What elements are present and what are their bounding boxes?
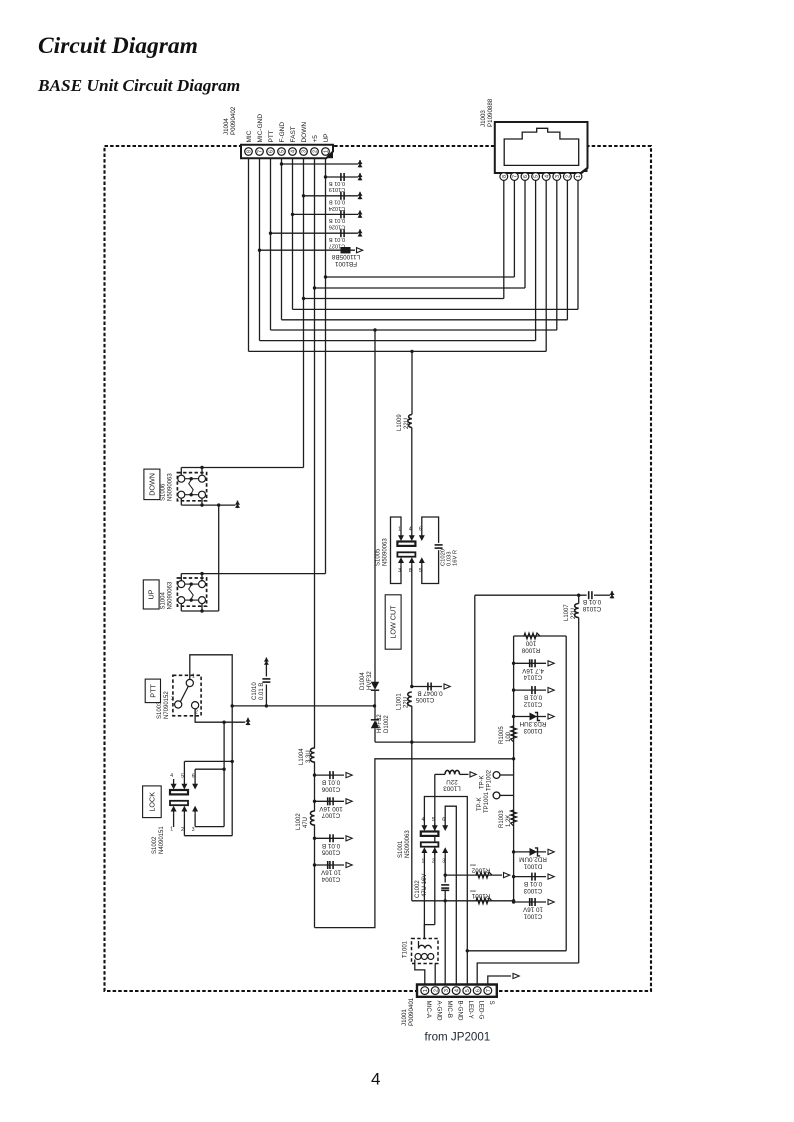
svg-text:from JP2001: from JP2001 bbox=[425, 1031, 491, 1044]
svg-text:3.3U: 3.3U bbox=[306, 750, 312, 763]
svg-text:MIC-A: MIC-A bbox=[425, 1001, 432, 1019]
svg-text:R1005: R1005 bbox=[499, 726, 505, 744]
svg-text:4: 4 bbox=[544, 175, 550, 178]
svg-text:S1002: S1002 bbox=[152, 836, 158, 854]
svg-text:4: 4 bbox=[454, 989, 460, 992]
svg-text:C1014: C1014 bbox=[523, 674, 542, 681]
svg-text:0.01 B: 0.01 B bbox=[329, 180, 345, 186]
svg-text:1: 1 bbox=[170, 827, 173, 833]
svg-text:3: 3 bbox=[192, 827, 195, 833]
svg-text:2: 2 bbox=[195, 710, 198, 716]
svg-text:22U: 22U bbox=[446, 778, 458, 785]
svg-text:S: S bbox=[488, 1001, 495, 1005]
svg-text:6: 6 bbox=[523, 175, 529, 178]
svg-text:HPF32: HPF32 bbox=[377, 714, 383, 733]
svg-text:5: 5 bbox=[432, 817, 435, 823]
svg-text:2: 2 bbox=[432, 859, 435, 865]
svg-text:3: 3 bbox=[444, 989, 450, 992]
svg-text:4: 4 bbox=[170, 773, 173, 779]
svg-text:HVF32: HVF32 bbox=[367, 671, 373, 690]
svg-text:3: 3 bbox=[302, 150, 308, 153]
svg-text:***: *** bbox=[470, 860, 476, 866]
svg-text:BASE Unit Circuit Diagram: BASE Unit Circuit Diagram bbox=[37, 76, 240, 95]
svg-text:C1012: C1012 bbox=[523, 701, 542, 708]
svg-text:D1003: D1003 bbox=[523, 727, 542, 734]
svg-text:***: *** bbox=[470, 886, 476, 892]
svg-text:N5090063: N5090063 bbox=[405, 830, 411, 858]
svg-text:T1001: T1001 bbox=[403, 940, 409, 958]
svg-text:0.01 B: 0.01 B bbox=[259, 683, 265, 700]
svg-text:1: 1 bbox=[324, 150, 330, 153]
svg-text:DOWN: DOWN bbox=[147, 473, 156, 496]
svg-text:J1004: J1004 bbox=[223, 118, 230, 135]
svg-text:0.01 B: 0.01 B bbox=[322, 779, 340, 786]
svg-text:0.01 B: 0.01 B bbox=[583, 598, 601, 605]
svg-text:S1001: S1001 bbox=[398, 840, 404, 858]
svg-text:3: 3 bbox=[555, 175, 561, 178]
svg-text:C1007: C1007 bbox=[321, 812, 340, 819]
svg-text:47U: 47U bbox=[303, 817, 309, 828]
svg-text:5: 5 bbox=[534, 175, 540, 178]
svg-text:100: 100 bbox=[506, 731, 512, 742]
svg-text:16V R: 16V R bbox=[453, 550, 459, 566]
svg-text:J1003: J1003 bbox=[480, 110, 487, 127]
svg-text:N7090152: N7090152 bbox=[164, 691, 170, 719]
svg-text:1: 1 bbox=[422, 859, 425, 865]
svg-text:A-GND: A-GND bbox=[435, 1001, 442, 1021]
svg-text:0.01 B: 0.01 B bbox=[329, 199, 345, 205]
svg-text:MIC-B: MIC-B bbox=[446, 1001, 453, 1019]
svg-text:S1004: S1004 bbox=[161, 591, 167, 609]
svg-text:LOCK: LOCK bbox=[147, 792, 156, 812]
svg-text:0.0047 B: 0.0047 B bbox=[417, 689, 442, 696]
svg-text:MIC: MIC bbox=[246, 130, 253, 142]
svg-text:3: 3 bbox=[171, 696, 174, 702]
svg-text:R1001: R1001 bbox=[471, 892, 490, 899]
svg-text:RD3.3UH: RD3.3UH bbox=[519, 720, 546, 727]
svg-text:RD2.0UM: RD2.0UM bbox=[519, 856, 547, 863]
svg-text:N5090063: N5090063 bbox=[168, 473, 174, 501]
svg-text:L1001: L1001 bbox=[397, 693, 403, 710]
svg-text:FAST: FAST bbox=[290, 126, 297, 142]
svg-text:0.01 B: 0.01 B bbox=[524, 694, 542, 701]
svg-text:5: 5 bbox=[419, 568, 422, 574]
svg-text:2: 2 bbox=[566, 175, 572, 178]
svg-text:P1090888: P1090888 bbox=[487, 98, 494, 127]
svg-text:C1003: C1003 bbox=[523, 887, 542, 894]
svg-text:2: 2 bbox=[181, 827, 184, 833]
svg-text:L1003: L1003 bbox=[443, 784, 461, 791]
svg-text:C1001: C1001 bbox=[523, 912, 542, 919]
svg-text:C1027: C1027 bbox=[329, 242, 345, 248]
svg-text:4: 4 bbox=[409, 527, 412, 533]
svg-text:D1002: D1002 bbox=[384, 715, 390, 733]
svg-text:P0090401: P0090401 bbox=[408, 997, 415, 1026]
svg-text:UP: UP bbox=[323, 133, 330, 142]
svg-text:2: 2 bbox=[313, 150, 319, 153]
svg-text:TP-K: TP-K bbox=[477, 797, 483, 811]
svg-text:C1004: C1004 bbox=[321, 875, 340, 882]
svg-text:C1002: C1002 bbox=[415, 880, 421, 898]
svg-text:5: 5 bbox=[181, 774, 184, 780]
svg-text:L1007: L1007 bbox=[564, 604, 570, 621]
svg-text:2: 2 bbox=[433, 989, 439, 992]
svg-text:C1006: C1006 bbox=[321, 786, 340, 793]
svg-text:N4090151: N4090151 bbox=[159, 826, 165, 854]
svg-text:0.01 B: 0.01 B bbox=[329, 236, 345, 242]
svg-text:TP1001: TP1001 bbox=[484, 791, 490, 813]
svg-text:S1006: S1006 bbox=[161, 483, 167, 501]
svg-text:3: 3 bbox=[398, 568, 401, 574]
svg-text:8: 8 bbox=[409, 568, 412, 574]
svg-text:6: 6 bbox=[442, 817, 445, 823]
svg-text:DOWN: DOWN bbox=[301, 122, 308, 143]
svg-text:R1002: R1002 bbox=[471, 867, 490, 874]
svg-text:4: 4 bbox=[422, 817, 425, 823]
svg-text:47U 16V: 47U 16V bbox=[422, 874, 428, 897]
svg-text:LED-G: LED-G bbox=[477, 1001, 484, 1020]
svg-text:7: 7 bbox=[486, 989, 492, 992]
svg-text:S1003: S1003 bbox=[157, 701, 163, 719]
svg-text:PTT: PTT bbox=[148, 684, 157, 698]
svg-text:L1009: L1009 bbox=[397, 414, 403, 431]
svg-text:100 16V: 100 16V bbox=[318, 805, 342, 812]
svg-text:1: 1 bbox=[576, 175, 582, 178]
svg-text:4: 4 bbox=[371, 1070, 380, 1089]
svg-text:D1004: D1004 bbox=[360, 672, 366, 690]
svg-text:D1001: D1001 bbox=[523, 862, 542, 869]
svg-text:5: 5 bbox=[280, 150, 286, 153]
svg-text:5: 5 bbox=[465, 989, 471, 992]
svg-text:7: 7 bbox=[513, 175, 519, 178]
svg-text:100: 100 bbox=[525, 640, 536, 647]
svg-text:C1005: C1005 bbox=[321, 849, 340, 856]
svg-text:Circuit Diagram: Circuit Diagram bbox=[38, 33, 198, 59]
svg-text:C1019: C1019 bbox=[329, 186, 345, 192]
svg-text:S1005: S1005 bbox=[376, 548, 382, 566]
svg-text:6: 6 bbox=[419, 527, 422, 533]
svg-text:10 16V: 10 16V bbox=[522, 906, 543, 913]
svg-text:LOW CUT: LOW CUT bbox=[389, 605, 398, 639]
svg-text:4.7 16V: 4.7 16V bbox=[521, 667, 544, 674]
svg-text:+5: +5 bbox=[312, 135, 319, 143]
svg-text:MIC-GND: MIC-GND bbox=[257, 114, 264, 143]
svg-text:N5090063: N5090063 bbox=[383, 538, 389, 566]
svg-text:8: 8 bbox=[247, 150, 253, 153]
svg-text:TP-K: TP-K bbox=[480, 775, 486, 789]
svg-text:4: 4 bbox=[291, 150, 297, 153]
svg-text:R1003: R1003 bbox=[499, 810, 505, 828]
svg-text:22U: 22U bbox=[404, 697, 410, 708]
svg-text:B-GND: B-GND bbox=[456, 1001, 463, 1021]
svg-text:C1026: C1026 bbox=[329, 224, 345, 230]
svg-text:1: 1 bbox=[192, 674, 195, 680]
svg-text:L1002: L1002 bbox=[296, 813, 302, 830]
svg-text:FB1001: FB1001 bbox=[334, 260, 357, 267]
svg-text:0.01 B: 0.01 B bbox=[322, 842, 340, 849]
svg-text:6: 6 bbox=[269, 150, 275, 153]
svg-text:22U: 22U bbox=[571, 608, 577, 619]
svg-text:UP: UP bbox=[147, 589, 156, 599]
svg-text:0.01 B: 0.01 B bbox=[524, 880, 542, 887]
svg-text:C1018: C1018 bbox=[582, 605, 601, 612]
svg-text:22U: 22U bbox=[404, 418, 410, 429]
svg-text:N5090063: N5090063 bbox=[168, 581, 174, 609]
svg-text:3: 3 bbox=[442, 859, 445, 865]
svg-text:L11005B8: L11005B8 bbox=[331, 253, 360, 260]
svg-text:0.01 B: 0.01 B bbox=[329, 217, 345, 223]
svg-text:6: 6 bbox=[475, 989, 481, 992]
svg-text:C1010: C1010 bbox=[252, 682, 258, 700]
svg-text:C1024: C1024 bbox=[329, 205, 345, 211]
svg-text:1.2K: 1.2K bbox=[506, 815, 512, 827]
svg-text:7: 7 bbox=[258, 150, 264, 153]
svg-text:LED-Y: LED-Y bbox=[467, 1001, 474, 1019]
svg-text:6: 6 bbox=[192, 774, 195, 780]
svg-text:P0090402: P0090402 bbox=[230, 106, 237, 135]
svg-text:TP1002: TP1002 bbox=[487, 769, 493, 791]
svg-text:10 16V: 10 16V bbox=[320, 869, 341, 876]
svg-text:R1008: R1008 bbox=[521, 646, 540, 653]
svg-text:L1004: L1004 bbox=[299, 748, 305, 765]
svg-text:J1001: J1001 bbox=[401, 1009, 408, 1026]
svg-text:F-GND: F-GND bbox=[279, 122, 286, 143]
svg-text:1: 1 bbox=[398, 527, 401, 533]
svg-text:PTT: PTT bbox=[268, 130, 275, 142]
svg-text:8: 8 bbox=[502, 175, 508, 178]
svg-text:1: 1 bbox=[423, 989, 429, 992]
svg-text:C1005: C1005 bbox=[415, 696, 434, 703]
